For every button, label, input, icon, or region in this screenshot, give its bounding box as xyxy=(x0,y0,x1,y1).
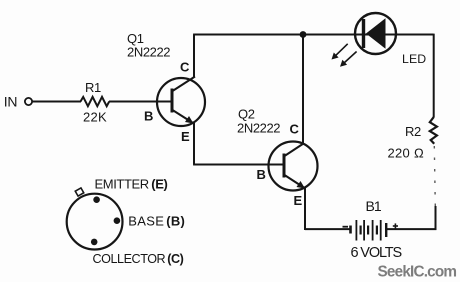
svg-text:22K: 22K xyxy=(83,110,107,125)
svg-text:C: C xyxy=(180,60,190,75)
svg-text:2N2222: 2N2222 xyxy=(127,45,170,60)
svg-text:EMITTER(E): EMITTER(E) xyxy=(95,177,168,192)
svg-text:B: B xyxy=(144,109,153,124)
svg-text:B: B xyxy=(257,167,266,182)
svg-text:BASE(B): BASE(B) xyxy=(128,214,185,229)
svg-text:SeekIC.com: SeekIC.com xyxy=(378,264,457,281)
svg-text:R2: R2 xyxy=(405,124,421,139)
svg-text:E: E xyxy=(294,193,303,208)
svg-text:IN: IN xyxy=(4,94,17,110)
svg-text:E: E xyxy=(181,129,190,144)
svg-text:B1: B1 xyxy=(366,198,382,214)
svg-text:C: C xyxy=(290,122,300,137)
svg-text:2N2222: 2N2222 xyxy=(237,121,280,136)
svg-text:R1: R1 xyxy=(85,80,101,95)
svg-text:COLLECTOR(C): COLLECTOR(C) xyxy=(93,252,184,266)
svg-text:LED: LED xyxy=(402,52,426,66)
svg-text:220 Ω: 220 Ω xyxy=(388,146,425,161)
svg-text:Q2: Q2 xyxy=(238,107,255,122)
svg-text:6 VOLTS: 6 VOLTS xyxy=(351,245,402,261)
